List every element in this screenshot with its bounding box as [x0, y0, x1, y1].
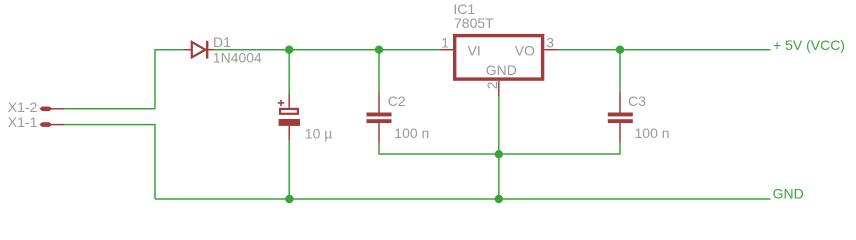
svg-text:C3: C3 [628, 93, 646, 109]
wire X1-2 to left column [65, 108, 155, 110]
label X1-1 [8, 114, 38, 130]
svg-text:GND: GND [773, 186, 804, 202]
wire C2 branch bottom to gnd node [379, 143, 499, 154]
wire C2 branch top [378, 50, 380, 92]
svg-text:D1: D1 [213, 34, 231, 50]
wire gnd pin to mid rail [498, 96, 500, 154]
junction C2 top [375, 46, 383, 54]
wire X1-1 to bottom rail corner [65, 125, 155, 199]
pin 3 VO lead [544, 49, 557, 51]
junction C3 top [616, 46, 624, 54]
capacitor C2 [367, 92, 392, 143]
IC IC1 7805 regulator body [455, 36, 543, 80]
svg-text:+ 5V (VCC): + 5V (VCC) [773, 37, 845, 53]
capacitor C1 polarized 10u [278, 94, 300, 140]
svg-text:X1-1: X1-1 [8, 114, 38, 130]
wire top rail right (pin 3 to +5V label) [558, 49, 771, 51]
junction gnd bottom [495, 195, 503, 203]
pin number 3 [546, 34, 554, 50]
label D1 name [213, 34, 231, 50]
pin number 2 [484, 81, 500, 89]
svg-text:1N4004: 1N4004 [213, 50, 262, 66]
wire top rail mid (diode cathode to IC pin 1) [214, 49, 440, 51]
label C3 value 100n [635, 125, 670, 141]
pin 1 VI lead [440, 49, 453, 51]
pin label GND [486, 62, 517, 78]
wire C1 branch bottom [288, 140, 290, 199]
wire top rail left segment (X1 corner to diode anode) [155, 50, 184, 109]
label C2 value 100n [394, 125, 429, 141]
diode D1 [184, 41, 214, 59]
svg-text:7805T: 7805T [454, 15, 494, 31]
label C1 value 10u [305, 125, 333, 141]
svg-text:1: 1 [441, 34, 449, 50]
label D1 value 1N4004 [213, 50, 262, 66]
wire C3 branch bottom to gnd node [499, 143, 620, 154]
pin 2 GND lead [498, 81, 500, 96]
junction C1 top [285, 46, 293, 54]
svg-text:100 n: 100 n [394, 125, 429, 141]
pin number 1 [441, 34, 449, 50]
svg-text:GND: GND [486, 62, 517, 78]
label C3 name [628, 93, 646, 109]
connector X1-2 pin [40, 107, 65, 111]
pin label VI [468, 43, 481, 59]
svg-text:2: 2 [484, 81, 500, 89]
svg-text:VO: VO [515, 43, 535, 59]
pin label VO [515, 43, 535, 59]
junction gnd mid [495, 150, 503, 158]
wire C1 branch top [288, 50, 290, 94]
wire gnd mid to bottom rail [498, 154, 500, 199]
label C2 name [388, 93, 406, 109]
wire bottom rail [155, 198, 771, 200]
connector X1-1 pin [40, 123, 65, 127]
svg-text:100 n: 100 n [635, 125, 670, 141]
label IC1 name [453, 1, 475, 17]
svg-text:10 µ: 10 µ [305, 125, 333, 141]
svg-text:X1-2: X1-2 [8, 99, 38, 115]
label X1-2 [8, 99, 38, 115]
svg-text:VI: VI [468, 43, 481, 59]
svg-text:C2: C2 [388, 93, 406, 109]
junction C1 bottom [285, 195, 293, 203]
node GND label [773, 186, 804, 202]
wire C3 branch top [619, 50, 621, 92]
svg-text:3: 3 [546, 34, 554, 50]
label IC1 value 7805T [454, 15, 494, 31]
node +5V (VCC) label [773, 37, 845, 53]
capacitor C3 [608, 92, 633, 143]
